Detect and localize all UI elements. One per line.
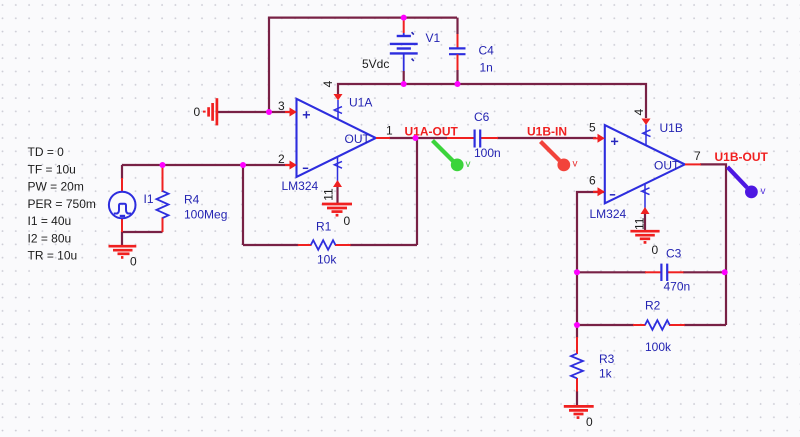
svg-text:TD = 0: TD = 0 bbox=[28, 145, 65, 159]
wire V+ rail row bbox=[338, 84, 646, 118]
svg-text:1: 1 bbox=[386, 124, 393, 138]
wire I1 bottom to ground bbox=[122, 231, 163, 233]
svg-text:U1B: U1B bbox=[660, 121, 683, 135]
node C3 right junction bbox=[722, 269, 728, 275]
svg-text:LM324: LM324 bbox=[282, 179, 319, 193]
svg-text:100k: 100k bbox=[645, 340, 672, 354]
node pin2 junction bbox=[240, 162, 246, 168]
wire C3 row bbox=[577, 271, 646, 273]
wire R3 bottom bbox=[576, 391, 578, 405]
svg-text:v: v bbox=[466, 159, 471, 170]
wire U1B pin6 row bbox=[577, 192, 605, 338]
svg-text:R1: R1 bbox=[316, 220, 332, 234]
svg-text:7: 7 bbox=[694, 149, 701, 163]
svg-text:3: 3 bbox=[278, 99, 285, 113]
svg-text:TF = 10u: TF = 10u bbox=[28, 162, 76, 176]
U1A pin 4 bbox=[334, 94, 343, 101]
current source I1 bbox=[121, 178, 123, 232]
ground under R3 bbox=[564, 406, 594, 417]
svg-text:10k: 10k bbox=[317, 253, 337, 267]
wire ground drop I1 bbox=[121, 231, 123, 246]
svg-text:11: 11 bbox=[633, 217, 647, 230]
node U1A-OUT junction bbox=[413, 135, 419, 141]
U1B pin 5 bbox=[598, 134, 605, 143]
svg-text:C4: C4 bbox=[479, 44, 495, 58]
svg-text:OUT: OUT bbox=[345, 132, 371, 146]
ground under U1B pin11 bbox=[630, 231, 659, 242]
svg-text:PW = 20m: PW = 20m bbox=[28, 180, 84, 194]
resistor R4 bbox=[162, 165, 164, 232]
svg-text:LM324: LM324 bbox=[590, 207, 627, 221]
svg-text:I1: I1 bbox=[144, 192, 154, 206]
svg-text:TR = 10u: TR = 10u bbox=[28, 249, 78, 263]
svg-text:U1B-IN: U1B-IN bbox=[527, 125, 567, 139]
svg-text:0: 0 bbox=[194, 105, 201, 119]
node V1 top junction bbox=[401, 15, 407, 21]
svg-text:2: 2 bbox=[278, 152, 285, 166]
wire top rail bbox=[269, 18, 457, 112]
wire R2 row bbox=[577, 324, 634, 326]
capacitor C4 bbox=[456, 18, 458, 34]
probe violet U1B-OUT bbox=[728, 167, 766, 198]
node R2 left junction bbox=[574, 322, 580, 328]
capacitor C3 bbox=[645, 271, 661, 273]
svg-text:I2 = 80u: I2 = 80u bbox=[28, 231, 72, 245]
svg-text:470n: 470n bbox=[664, 280, 691, 294]
wire I1 branch bbox=[121, 165, 123, 179]
U1A pin 3 bbox=[285, 111, 291, 113]
svg-text:v: v bbox=[573, 159, 578, 170]
svg-text:0: 0 bbox=[652, 243, 659, 257]
node R4 top junction bbox=[160, 162, 166, 168]
svg-text:1n: 1n bbox=[480, 61, 493, 75]
svg-text:OUT: OUT bbox=[654, 159, 680, 173]
svg-text:U1B-OUT: U1B-OUT bbox=[715, 150, 769, 164]
svg-text:0: 0 bbox=[130, 255, 137, 269]
wire R2 row right bbox=[684, 324, 726, 326]
wire C6 to U1B bbox=[497, 137, 596, 139]
wire U1A pin11 to ground bbox=[336, 186, 338, 205]
param text block bbox=[28, 145, 96, 263]
wire C3 row right bbox=[683, 271, 726, 273]
ground under U1A pin11 bbox=[322, 204, 352, 215]
svg-text:PER = 750m: PER = 750m bbox=[28, 197, 96, 211]
op-amp U1B bbox=[605, 125, 685, 203]
svg-text:C3: C3 bbox=[666, 247, 682, 261]
svg-text:5Vdc: 5Vdc bbox=[362, 57, 389, 71]
svg-text:R4: R4 bbox=[184, 193, 200, 207]
resistor R3 bbox=[576, 337, 578, 392]
U1B pin 6 bbox=[598, 187, 605, 196]
U1B pin 4 bbox=[642, 119, 651, 126]
wire R1 row right bbox=[350, 244, 417, 246]
resistor R2 bbox=[633, 324, 685, 326]
probe green U1A-OUT bbox=[433, 141, 471, 172]
U1A pin 1 bbox=[376, 137, 390, 139]
ground 0 left (rotated) bbox=[204, 98, 217, 125]
wire U1B pin11 to ground bbox=[644, 213, 646, 231]
wire U1A feedback right bbox=[416, 138, 418, 245]
U1B pin 7 bbox=[685, 163, 701, 165]
node C4 bottom junction bbox=[455, 81, 461, 87]
svg-text:11: 11 bbox=[322, 188, 336, 201]
svg-text:I1 = 40u: I1 = 40u bbox=[28, 214, 72, 228]
svg-text:R2: R2 bbox=[645, 299, 661, 313]
svg-text:v: v bbox=[761, 186, 766, 197]
ground under I1 bbox=[109, 246, 137, 257]
svg-text:V1: V1 bbox=[426, 31, 441, 45]
resistor R1 bbox=[298, 244, 351, 246]
svg-text:U1A: U1A bbox=[349, 96, 372, 110]
wire pin3 row bbox=[217, 111, 290, 113]
svg-text:0: 0 bbox=[344, 214, 351, 228]
wire U1A out row bbox=[389, 137, 447, 139]
svg-text:R3: R3 bbox=[599, 352, 615, 366]
svg-text:0: 0 bbox=[586, 415, 593, 429]
svg-text:1k: 1k bbox=[599, 367, 613, 381]
svg-text:C6: C6 bbox=[474, 110, 490, 124]
probe red U1B-IN bbox=[541, 142, 578, 172]
svg-text:100n: 100n bbox=[474, 146, 501, 160]
wire pin2 row bbox=[122, 164, 290, 166]
svg-text:100Meg: 100Meg bbox=[184, 208, 227, 222]
node pin3 junction bbox=[266, 109, 272, 115]
capacitor C6 bbox=[447, 137, 474, 139]
svg-text:5: 5 bbox=[589, 121, 596, 135]
op-amp U1A bbox=[297, 99, 376, 177]
svg-text:6: 6 bbox=[589, 174, 596, 188]
node V1 bottom junction bbox=[401, 81, 407, 87]
svg-text:4: 4 bbox=[632, 109, 646, 116]
svg-text:U1A-OUT: U1A-OUT bbox=[405, 125, 459, 139]
svg-text:4: 4 bbox=[321, 80, 335, 87]
U1A pin 11 bbox=[337, 158, 339, 188]
battery V1 bbox=[403, 18, 405, 33]
wire U1B out bbox=[700, 164, 726, 325]
U1A pin 2 bbox=[285, 164, 291, 166]
U1B pin 11 bbox=[644, 184, 646, 214]
node C3 left junction bbox=[574, 269, 580, 275]
wire R1 row bbox=[243, 244, 299, 246]
wire U1A feedback left bbox=[242, 165, 244, 245]
